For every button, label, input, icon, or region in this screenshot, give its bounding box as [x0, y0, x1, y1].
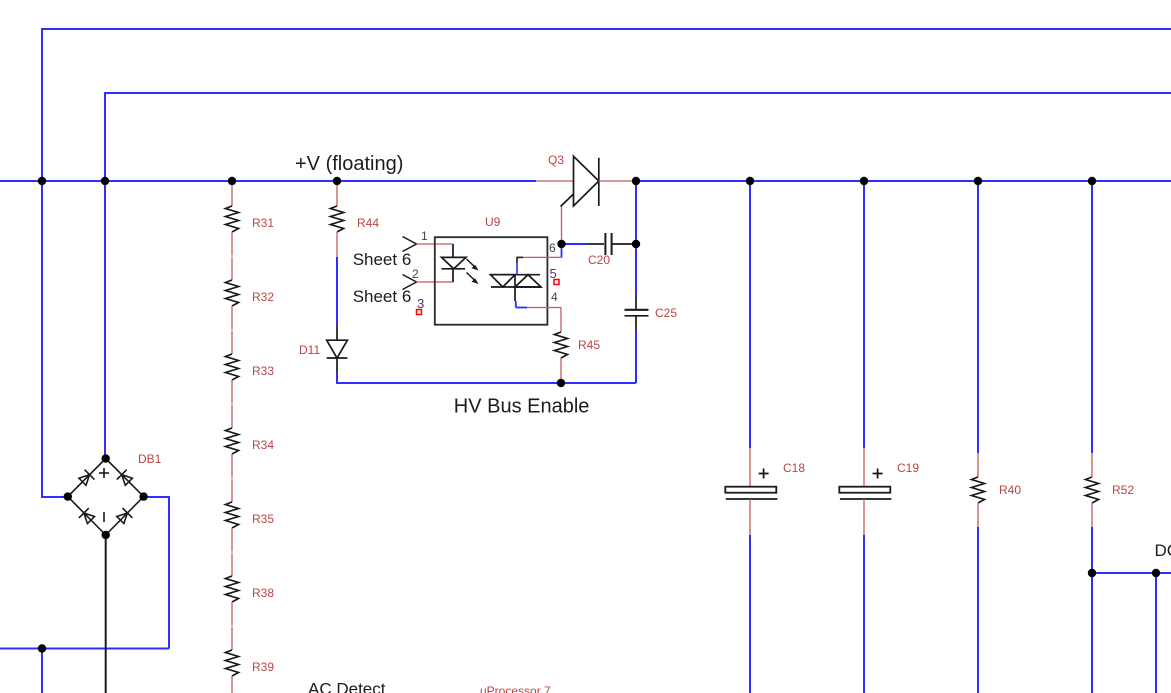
svg-text:R34: R34 — [252, 438, 274, 452]
svg-text:2: 2 — [412, 267, 419, 281]
diode D11 — [299, 326, 347, 373]
pin 3 no-connect — [417, 296, 425, 315]
svg-text:D11: D11 — [299, 343, 320, 357]
capacitor C20 — [562, 233, 637, 267]
node uProcessor 7 label — [480, 684, 551, 693]
wire R35-R38 — [231, 528, 233, 576]
wire R32-R33 — [231, 306, 233, 354]
junction dot Q3 gate / pin6 — [557, 240, 565, 248]
svg-text:Sheet 6: Sheet 6 — [353, 250, 412, 269]
svg-text:4: 4 — [551, 290, 558, 304]
sheet connector pin 2 — [353, 267, 453, 306]
wire top bus 1 — [42, 29, 1171, 181]
svg-text:1: 1 — [421, 229, 428, 243]
wire drop to DB1 top — [104, 181, 106, 457]
resistor R38 — [226, 576, 275, 602]
svg-text:R39: R39 — [252, 660, 274, 674]
svg-text:R32: R32 — [252, 290, 274, 304]
resistor R52 — [1086, 181, 1135, 693]
node HV Bus Enable label — [454, 396, 590, 418]
svg-text:C25: C25 — [655, 306, 677, 320]
wire pin4 to R45 — [560, 308, 562, 333]
svg-text:R31: R31 — [252, 216, 274, 230]
svg-text:C20: C20 — [588, 253, 610, 267]
svg-text:R45: R45 — [578, 338, 600, 352]
junction dots DB1 — [64, 454, 148, 539]
wire R38-R39 — [231, 602, 233, 650]
transistor Q3 SCR — [536, 153, 636, 207]
junction dot R45 bottom — [557, 379, 565, 387]
wire R45 bottom — [560, 358, 562, 383]
node AC Detect label — [308, 680, 386, 693]
resistor R35 — [226, 502, 275, 528]
wire R34-R35 — [231, 454, 233, 502]
pin 5 no-connect — [550, 266, 560, 285]
wire U9 pin6 internal — [517, 241, 562, 275]
wire left drop to DB1 left — [42, 181, 66, 497]
svg-text:Sheet 6: Sheet 6 — [353, 287, 412, 306]
node +V (floating) label — [295, 153, 403, 175]
svg-text:R40: R40 — [999, 483, 1021, 497]
LED inside U9 — [442, 244, 479, 284]
resistor R45 — [555, 332, 601, 358]
wire Q3 gate — [561, 207, 563, 245]
resistor R32 — [226, 280, 275, 306]
svg-text:C18: C18 — [783, 461, 805, 475]
svg-text:U9: U9 — [485, 215, 501, 229]
svg-text:R35: R35 — [252, 512, 274, 526]
junction dots on +V rail — [38, 177, 1096, 185]
wire U9 pin4 internal — [515, 287, 561, 308]
wire R31-R32 — [231, 232, 233, 280]
sheet connector pin 1 — [353, 229, 453, 269]
bridge rectifier DB1 — [68, 452, 162, 535]
wire R33-R34 — [231, 380, 233, 428]
capacitor C19 — [839, 181, 919, 693]
wire right branch vertical — [635, 181, 637, 296]
svg-text:R33: R33 — [252, 364, 274, 378]
resistor R44 — [331, 181, 380, 232]
wire bottom-left bus — [0, 648, 169, 650]
wire R39 bottom — [231, 676, 233, 693]
capacitor C18 — [725, 181, 805, 693]
wire C25 to bottom bus — [635, 330, 637, 383]
svg-text:+V (floating): +V (floating) — [295, 153, 403, 175]
resistor R31 — [226, 181, 275, 232]
svg-text:HV Bus Enable: HV Bus Enable — [454, 396, 590, 418]
resistor R40 — [972, 181, 1022, 693]
resistor R33 — [226, 354, 275, 380]
resistor R39 — [226, 650, 275, 676]
junction dot bottom-left — [38, 644, 46, 652]
wire HV bus enable bottom — [337, 373, 636, 384]
wire DB1 bottom output — [105, 535, 107, 693]
svg-text:R38: R38 — [252, 586, 274, 600]
wire DC OK branch — [1092, 573, 1171, 693]
junction dot R52 branch — [1088, 569, 1096, 577]
svg-text:C19: C19 — [897, 461, 919, 475]
svg-text:uProcessor 7: uProcessor 7 — [480, 684, 551, 693]
wire +V rail right — [636, 180, 1171, 182]
resistor R34 — [226, 428, 275, 454]
svg-text:R44: R44 — [357, 216, 379, 230]
junction dot C20 right — [632, 240, 640, 248]
capacitor C25 — [625, 296, 678, 330]
junction dot DC branch — [1152, 569, 1160, 577]
wire DB1 right to bottom bus — [145, 497, 169, 649]
svg-text:R52: R52 — [1112, 483, 1134, 497]
wire top bus 2 — [105, 93, 1171, 181]
svg-text:6: 6 — [549, 241, 556, 255]
wire +V rail left — [0, 180, 536, 182]
svg-text:AC Detect: AC Detect — [308, 680, 386, 693]
svg-text:Q3: Q3 — [548, 153, 564, 167]
triac inside U9 — [491, 275, 542, 287]
wire R44 to D11 — [336, 232, 338, 326]
wire bottom-left drop — [41, 649, 43, 693]
op-amp U9 optocoupler box — [435, 215, 548, 325]
node DC label — [1155, 541, 1171, 560]
svg-text:DC: DC — [1155, 541, 1171, 560]
svg-text:DB1: DB1 — [138, 452, 162, 466]
